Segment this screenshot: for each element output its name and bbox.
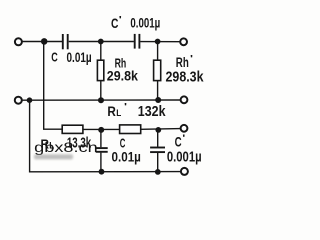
svg-text:Rh: Rh <box>176 55 189 70</box>
wire Rh bottom lead <box>100 81 102 101</box>
node A junction <box>41 38 48 45</box>
resistor Rh' <box>154 60 161 80</box>
wire Rh' top lead <box>157 42 159 61</box>
svg-text:': ' <box>190 54 193 64</box>
node F junction (RL' right) <box>155 127 161 133</box>
node junction Rh' bottom <box>155 97 161 103</box>
terminal input top left <box>15 38 22 45</box>
svg-text:0.001µ: 0.001µ <box>167 149 202 165</box>
terminal output middle right <box>181 96 188 103</box>
capacitor C (bottom shunt) <box>96 148 108 152</box>
svg-text:L: L <box>116 108 121 118</box>
terminal input middle left <box>15 97 22 104</box>
svg-text:': ' <box>119 15 122 25</box>
resistor RL' <box>120 125 141 134</box>
node junction left of middle rail <box>27 97 33 103</box>
wire top rail left segment <box>22 41 62 43</box>
capacitor C (top, series) <box>63 34 68 49</box>
wire Rh' bottom lead <box>157 81 159 101</box>
svg-text:0.001µ: 0.001µ <box>130 15 160 31</box>
node D junction (Rh' top) <box>155 39 161 45</box>
capacitor C' (top, series) <box>135 34 140 49</box>
wire top rail right segment <box>140 41 180 43</box>
node junction Rh bottom <box>98 97 104 103</box>
wire top rail middle segment <box>69 41 134 43</box>
svg-text:0.01µ: 0.01µ <box>67 49 92 65</box>
terminal output bottom right <box>181 168 188 175</box>
svg-text:29.8k: 29.8k <box>107 68 138 84</box>
wire left drop and bottom rail <box>30 100 181 172</box>
svg-text:C: C <box>175 134 182 149</box>
node junction bottom rail C' <box>155 169 161 175</box>
wire capacitor C2 top lead <box>100 129 102 147</box>
wire middle rail <box>23 99 181 101</box>
resistor Rh <box>97 60 103 80</box>
wire RL' right lead to terminal <box>141 128 181 131</box>
svg-text:': ' <box>182 133 185 143</box>
svg-text:C: C <box>51 50 58 65</box>
svg-text:298.3k: 298.3k <box>166 69 205 85</box>
wire capacitor C2 bottom lead <box>100 153 102 172</box>
wire Rh top lead <box>100 42 102 61</box>
svg-text:C: C <box>111 15 118 31</box>
node B junction (Rh top) <box>98 39 104 45</box>
watermark smudge <box>34 154 73 159</box>
svg-text:132k: 132k <box>138 103 166 120</box>
terminal output RL' row right <box>181 125 188 132</box>
svg-text:': ' <box>124 102 127 112</box>
svg-text:0.01µ: 0.01µ <box>112 148 141 164</box>
capacitor C' (bottom shunt) <box>150 148 165 153</box>
resistor RL <box>62 125 83 133</box>
wire node A vertical drop to RL row <box>44 41 63 129</box>
node junction bottom rail C <box>99 169 105 175</box>
wire RL to RL' segment <box>83 128 120 130</box>
wire capacitor C2' top lead <box>157 130 159 147</box>
svg-text:R: R <box>107 103 116 119</box>
wire capacitor C2' bottom lead <box>157 153 159 172</box>
svg-text:gbx8.cn: gbx8.cn <box>34 139 98 155</box>
node E junction (RL-RL'-C) <box>98 127 104 133</box>
terminal output top right <box>180 38 187 45</box>
